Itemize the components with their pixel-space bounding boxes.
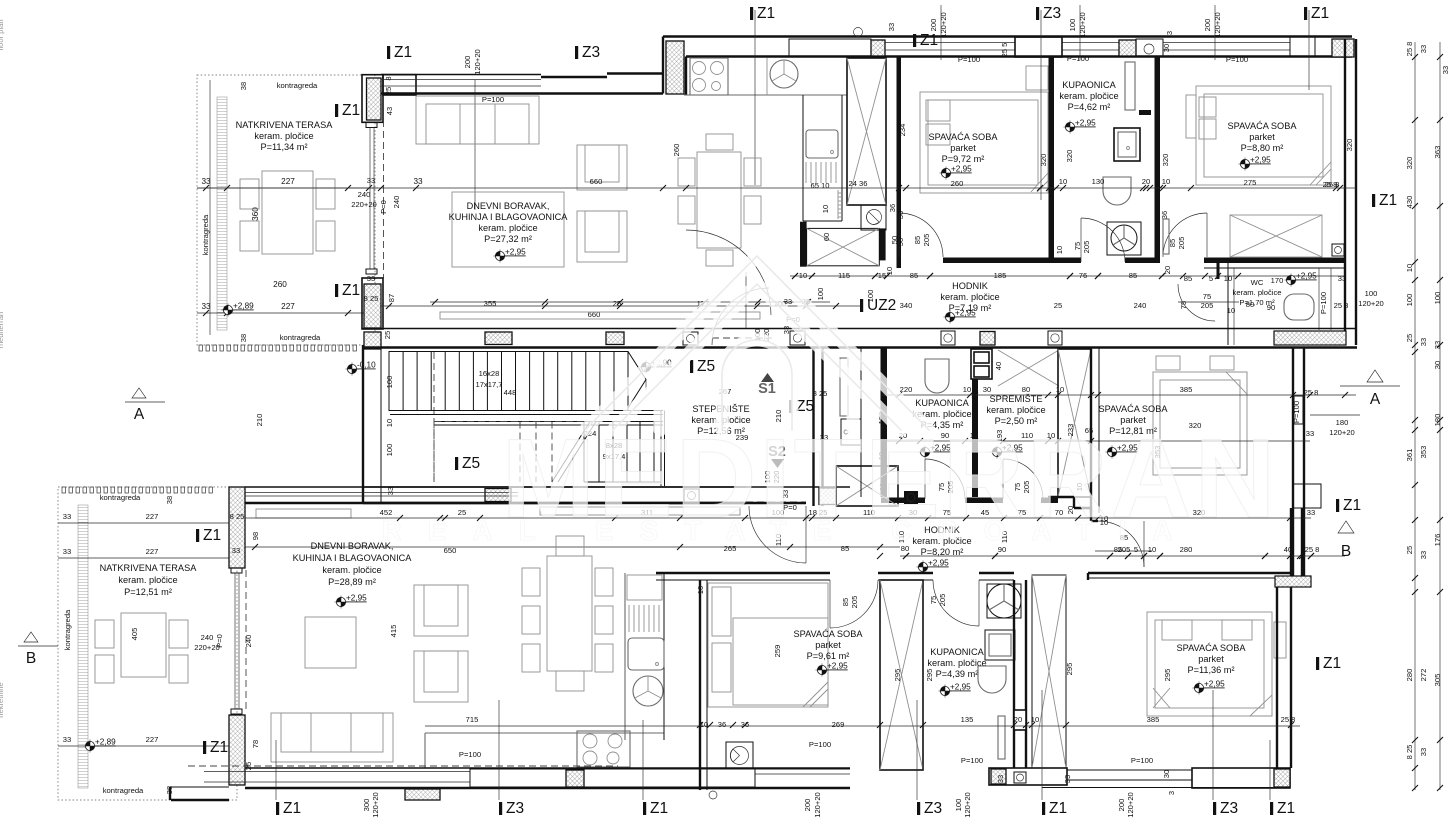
svg-text:+2,95: +2,95 <box>1296 272 1317 281</box>
svg-text:P=100: P=100 <box>1067 54 1089 63</box>
svg-text:P=9,61 m²: P=9,61 m² <box>807 651 850 661</box>
svg-text:30: 30 <box>1433 361 1442 369</box>
flight break V <box>628 352 646 409</box>
svg-text:floor plan: floor plan <box>0 19 5 50</box>
svg-text:361: 361 <box>1405 449 1414 462</box>
svg-text:120+20: 120+20 <box>473 49 482 75</box>
svg-text:Z1: Z1 <box>1343 497 1361 514</box>
kitchen2 counter south <box>425 732 664 734</box>
svg-text:Z1: Z1 <box>394 44 412 61</box>
svg-text:10: 10 <box>696 586 705 594</box>
svg-text:8 25: 8 25 <box>813 389 828 398</box>
svg-text:10: 10 <box>821 205 830 213</box>
kitchen2 right column <box>624 573 626 740</box>
svg-text:33: 33 <box>1306 429 1314 438</box>
svg-text:+2,95: +2,95 <box>950 683 971 692</box>
svg-text:25: 25 <box>1405 546 1414 554</box>
svg-text:234: 234 <box>898 124 907 137</box>
svg-text:33: 33 <box>63 512 71 521</box>
svg-text:180: 180 <box>1336 418 1349 427</box>
watermark logo and text <box>381 256 1278 546</box>
bedroom2 door arc <box>1163 213 1207 257</box>
svg-text:25: 25 <box>1054 301 1062 310</box>
marker Z3 bottom 1 <box>499 800 524 817</box>
svg-text:Z1: Z1 <box>283 800 301 817</box>
bedroom3 level <box>816 662 849 677</box>
svg-text:5: 5 <box>1209 274 1213 283</box>
lower flight dashed outline <box>434 421 598 423</box>
svg-text:100: 100 <box>1405 294 1414 307</box>
living1 dining table <box>697 152 741 248</box>
tick marks row y552 <box>877 553 883 559</box>
south wall top apt <box>362 328 1357 330</box>
svg-text:P=8,20 m²: P=8,20 m² <box>921 547 964 557</box>
svg-text:10: 10 <box>1148 545 1156 554</box>
marker Z1 right mid <box>1372 192 1397 209</box>
svg-text:8 25: 8 25 <box>364 294 379 303</box>
svg-text:16x28: 16x28 <box>479 369 500 378</box>
svg-text:25 8: 25 8 <box>1305 545 1320 554</box>
svg-text:P=0: P=0 <box>215 634 224 648</box>
terrace chair 4 <box>316 221 335 251</box>
svg-text:Z3: Z3 <box>924 800 942 817</box>
svg-text:200: 200 <box>1117 799 1126 812</box>
dim line 555 <box>900 555 1345 557</box>
bedroom3 door arc <box>830 580 878 628</box>
svg-text:20: 20 <box>1014 715 1022 724</box>
marker Z1 top edge 1 <box>750 5 775 22</box>
kupaonica south wall <box>1054 258 1081 264</box>
stair level -0,10 <box>346 361 377 376</box>
svg-text:8 25: 8 25 <box>1405 745 1414 760</box>
svg-text:33: 33 <box>201 177 211 186</box>
svg-text:P=100: P=100 <box>958 55 980 64</box>
svg-text:363: 363 <box>1433 146 1442 159</box>
svg-text:260: 260 <box>273 280 287 289</box>
svg-text:205: 205 <box>850 596 859 609</box>
svg-text:25 5: 25 5 <box>1000 43 1009 58</box>
svg-text:660: 660 <box>588 310 601 319</box>
svg-text:Z1: Z1 <box>650 800 668 817</box>
ventilation shaft top <box>847 58 886 205</box>
kitchen sink right <box>806 130 838 158</box>
bedroom4 wardrobe X <box>1032 575 1066 768</box>
svg-text:KUPAONICA: KUPAONICA <box>1062 80 1116 90</box>
wc door arc <box>1178 284 1215 321</box>
kupaonica2 toilet <box>978 666 1006 693</box>
dim chain line y188 <box>197 187 1356 189</box>
living2 coffee table <box>305 617 356 668</box>
svg-text:Z3: Z3 <box>1043 5 1061 22</box>
marker A right <box>1367 370 1383 382</box>
living1 armchair2 <box>577 211 627 262</box>
svg-text:85: 85 <box>1129 271 1137 280</box>
svg-text:76: 76 <box>1079 271 1087 280</box>
marker Z1 top kitchen <box>913 32 938 49</box>
svg-text:NATKRIVENA TERASA: NATKRIVENA TERASA <box>236 120 334 130</box>
dim line 518 <box>440 517 1311 519</box>
terrace chair 2 <box>240 221 259 251</box>
mid bedroom west wall <box>1090 348 1092 513</box>
marker Z3 bottom 2 <box>917 800 942 817</box>
svg-text:100: 100 <box>816 288 825 301</box>
terrace level marker +2,89 <box>222 302 255 317</box>
pillar kitchen corner <box>666 41 684 94</box>
svg-text:B: B <box>26 650 36 667</box>
svg-text:KUHINJA I BLAGOVAONICA: KUHINJA I BLAGOVAONICA <box>449 212 569 222</box>
pillar Z1 bottom-west <box>362 278 383 329</box>
right dim chain lines <box>1414 42 1416 790</box>
marker Z3 top inner <box>575 44 600 61</box>
bedroom1 level <box>940 165 973 180</box>
svg-text:B: B <box>1341 543 1351 560</box>
svg-text:Z1: Z1 <box>1323 655 1341 672</box>
svg-text:P=4,62 m²: P=4,62 m² <box>1068 102 1111 112</box>
bedroom2 level <box>1239 156 1272 171</box>
svg-text:+2,95: +2,95 <box>1075 119 1096 128</box>
stair level +2,90 <box>640 359 673 374</box>
svg-text:20: 20 <box>1142 177 1150 186</box>
marker B left <box>24 632 38 642</box>
hodnik top level <box>944 309 977 324</box>
svg-text:Z5: Z5 <box>462 455 480 472</box>
svg-text:+2,95: +2,95 <box>951 165 972 174</box>
svg-text:parket: parket <box>950 143 976 153</box>
living2 armchair1 <box>414 585 468 636</box>
washing machine bottom <box>726 742 753 769</box>
svg-text:115: 115 <box>838 271 850 280</box>
svg-text:Z3: Z3 <box>582 44 600 61</box>
terrace2 chair1 <box>95 620 114 648</box>
svg-text:227: 227 <box>146 735 159 744</box>
svg-text:280: 280 <box>1180 545 1193 554</box>
svg-text:Z1: Z1 <box>342 282 360 299</box>
svg-text:100: 100 <box>866 290 875 303</box>
north window band living <box>381 74 541 76</box>
svg-text:P=9,72 m²: P=9,72 m² <box>942 154 985 164</box>
svg-text:3: 3 <box>1167 791 1176 795</box>
svg-text:120+20: 120+20 <box>1078 12 1087 38</box>
svg-text:25: 25 <box>383 331 392 339</box>
marker Z1 west upper <box>196 527 221 544</box>
kitchen top wall outer <box>663 35 1352 37</box>
svg-text:210: 210 <box>255 414 264 427</box>
right chain ticks <box>1412 54 1418 60</box>
svg-text:3: 3 <box>1165 31 1174 35</box>
svg-text:25 8: 25 8 <box>1405 42 1414 57</box>
svg-text:120+20: 120+20 <box>939 12 948 38</box>
tick marks row y184 <box>903 185 909 191</box>
bedroom1 bed <box>920 92 1048 193</box>
svg-text:P=27,32 m²: P=27,32 m² <box>484 234 532 244</box>
stair south hatch b <box>819 488 836 505</box>
svg-text:parket: parket <box>1198 654 1224 664</box>
kitchen sink circle <box>770 60 798 88</box>
kupaonica2 level <box>939 683 972 698</box>
west window top apt <box>366 123 377 128</box>
svg-text:120+20: 120+20 <box>1213 12 1222 38</box>
kupaonica top level <box>1064 119 1097 134</box>
south wall hatch block b <box>606 332 624 345</box>
svg-text:33: 33 <box>1419 748 1428 756</box>
terrace kontragreda hatch strip vertical <box>217 97 227 330</box>
svg-text:10: 10 <box>1162 177 1170 186</box>
svg-text:120+20: 120+20 <box>813 792 822 818</box>
svg-text:kontragreda: kontragreda <box>201 214 210 255</box>
svg-text:33: 33 <box>1419 338 1428 346</box>
marker Z1 top edge 2 <box>1304 5 1329 22</box>
svg-text:240: 240 <box>244 635 253 648</box>
svg-text:+2,95: +2,95 <box>955 309 976 318</box>
mid bedroom south wall <box>1088 572 1293 574</box>
upper flight steps <box>389 352 628 411</box>
svg-text:SPAVAĆA SOBA: SPAVAĆA SOBA <box>1177 643 1247 653</box>
svg-text:keram. pločice: keram. pločice <box>478 223 537 233</box>
marker Z1 top inner <box>387 44 412 61</box>
svg-text:P=11,36 m²: P=11,36 m² <box>1187 665 1234 675</box>
east wall top apartment <box>1344 39 1346 345</box>
svg-text:200: 200 <box>463 56 472 69</box>
svg-text:33: 33 <box>63 547 71 556</box>
top guide lines <box>754 10 756 185</box>
svg-text:SPAVAĆA SOBA: SPAVAĆA SOBA <box>929 132 999 142</box>
svg-text:240: 240 <box>201 633 214 642</box>
tick marks row y518b <box>397 515 403 521</box>
svg-text:120+20: 120+20 <box>963 792 972 818</box>
svg-text:REAL ESTATE CROATIA: REAL ESTATE CROATIA <box>381 515 1198 546</box>
bedroom1 south wall <box>943 258 1049 264</box>
svg-text:100: 100 <box>1365 289 1378 298</box>
svg-text:24 36: 24 36 <box>848 179 867 188</box>
svg-text:120+20: 120+20 <box>1126 792 1135 818</box>
svg-text:10: 10 <box>1227 306 1235 315</box>
kupaonica2 door arc <box>933 580 979 626</box>
svg-text:36: 36 <box>1160 211 1169 219</box>
svg-text:33: 33 <box>386 487 395 495</box>
marker Z1 terrace upper <box>335 102 360 119</box>
svg-text:kontragreda: kontragreda <box>63 609 72 650</box>
living1 armchair1 <box>577 145 627 190</box>
svg-text:10: 10 <box>1224 274 1232 283</box>
svg-text:S1: S1 <box>758 381 776 397</box>
kitchen2 hatch <box>628 605 630 632</box>
dim chain line y395 mid <box>881 394 1356 396</box>
svg-text:40: 40 <box>994 362 1003 370</box>
svg-text:30: 30 <box>1162 44 1171 52</box>
svg-text:176: 176 <box>1433 534 1442 547</box>
svg-text:60: 60 <box>822 233 831 241</box>
washing machine top apt <box>861 205 886 230</box>
svg-text:240: 240 <box>392 196 401 209</box>
svg-text:+2,95: +2,95 <box>1204 680 1225 689</box>
svg-text:Z5: Z5 <box>796 398 814 415</box>
stove 4 burners <box>690 58 728 95</box>
pillar Z1 west bottom <box>229 715 245 785</box>
top entry arc <box>712 288 769 345</box>
living door arc to hodnik <box>686 230 771 315</box>
svg-text:200: 200 <box>929 19 938 32</box>
marker Z1 bottom 1 <box>276 800 301 817</box>
svg-text:KUPAONICA: KUPAONICA <box>930 647 984 657</box>
wall block 1 north <box>789 39 871 57</box>
svg-text:10: 10 <box>799 271 807 280</box>
svg-text:mediterran: mediterran <box>0 312 5 348</box>
svg-text:259: 259 <box>773 645 782 658</box>
svg-text:kontragreda: kontragreda <box>103 786 144 795</box>
kitchen hatch small lines <box>805 162 807 183</box>
svg-text:130: 130 <box>1092 177 1105 186</box>
south wall hatch block c <box>1048 331 1062 345</box>
svg-text:33: 33 <box>782 326 791 334</box>
mid bedroom level <box>1106 444 1139 459</box>
svg-text:Z1: Z1 <box>757 5 775 22</box>
window glazing north-right <box>885 42 1015 44</box>
terrace2 level +2,89 <box>84 738 117 753</box>
svg-text:272: 272 <box>1419 669 1428 682</box>
bedroom3 west wall <box>699 580 701 790</box>
svg-text:170: 170 <box>1271 276 1284 285</box>
svg-text:78: 78 <box>251 740 260 748</box>
mid rooms south wall <box>881 498 925 504</box>
svg-text:320: 320 <box>1161 154 1170 167</box>
mid kupaonica toilet <box>925 359 949 393</box>
svg-text:keram. pločice: keram. pločice <box>940 292 999 302</box>
svg-text:SPAVAĆA SOBA: SPAVAĆA SOBA <box>1228 121 1298 131</box>
svg-text:240: 240 <box>1134 301 1147 310</box>
svg-text:P=100: P=100 <box>961 756 983 765</box>
hodnik bottom level <box>917 559 950 574</box>
svg-text:33: 33 <box>1433 341 1442 349</box>
svg-text:33: 33 <box>413 177 423 186</box>
svg-text:38: 38 <box>165 496 174 504</box>
svg-text:25 8: 25 8 <box>1304 388 1319 397</box>
svg-text:DNEVNI BORAVAK,: DNEVNI BORAVAK, <box>467 201 550 211</box>
svg-text:P=0: P=0 <box>379 200 388 214</box>
svg-text:keram. pločice: keram. pločice <box>254 131 313 141</box>
svg-text:kontragreda: kontragreda <box>100 493 141 502</box>
svg-text:38: 38 <box>239 82 248 90</box>
svg-text:100: 100 <box>385 444 394 457</box>
svg-text:135: 135 <box>961 715 974 724</box>
svg-text:10: 10 <box>385 419 394 427</box>
svg-text:415: 415 <box>389 625 398 638</box>
kitchen right counter <box>802 95 804 221</box>
radiator corridor <box>840 358 848 416</box>
svg-text:320: 320 <box>1039 154 1048 167</box>
marker Z3 bottom 3 <box>1213 800 1238 817</box>
svg-text:715: 715 <box>466 715 479 724</box>
svg-text:Z1: Z1 <box>1049 800 1067 817</box>
dim chain line y441 mid <box>881 440 1310 442</box>
svg-text:Z1: Z1 <box>1311 5 1329 22</box>
svg-text:75: 75 <box>1073 242 1082 250</box>
terrace2 hatch strip <box>78 505 88 788</box>
bottom shaft X <box>836 466 898 506</box>
terrace chair 3 <box>316 179 335 209</box>
kupaonica2 shower <box>987 584 1021 618</box>
svg-text:353: 353 <box>1419 446 1428 459</box>
dim chain line y306 top <box>380 305 860 307</box>
wall block 2 north <box>1015 37 1062 57</box>
wall block 3 north <box>1119 40 1136 56</box>
marker B right <box>1338 521 1354 533</box>
svg-text:8: 8 <box>384 76 393 80</box>
svg-text:85: 85 <box>1184 274 1192 283</box>
svg-text:36: 36 <box>718 720 726 729</box>
svg-text:keram. pločice: keram. pločice <box>1059 91 1118 101</box>
svg-text:295: 295 <box>1163 669 1172 682</box>
svg-text:90: 90 <box>1267 303 1275 312</box>
svg-text:100: 100 <box>385 376 394 389</box>
svg-text:P=11,34 m²: P=11,34 m² <box>260 142 307 152</box>
svg-text:295: 295 <box>893 669 902 682</box>
facade step lines <box>541 76 607 78</box>
svg-text:10: 10 <box>1059 177 1067 186</box>
svg-text:P=100: P=100 <box>1319 292 1328 314</box>
svg-text:WC: WC <box>1251 278 1264 287</box>
marker Z1 terrace lower <box>335 282 360 299</box>
svg-text:269: 269 <box>832 720 845 729</box>
bedroom2 wardrobe X <box>1230 215 1322 257</box>
marker Z1 west lower <box>203 739 228 756</box>
svg-text:P=28,89 m²: P=28,89 m² <box>328 577 376 587</box>
landing edge lines <box>390 410 663 412</box>
svg-text:385: 385 <box>1180 385 1193 394</box>
terrace2 crenellated top edge <box>62 487 65 493</box>
svg-text:10: 10 <box>1055 246 1064 254</box>
kupaonica2 west wall <box>922 580 924 770</box>
terrace top outline dashed <box>197 75 375 345</box>
living2 armchair2 <box>414 651 468 702</box>
svg-text:Z1: Z1 <box>342 102 360 119</box>
kupaonica door arc <box>1081 218 1125 262</box>
marker Z3 top edge <box>1036 5 1061 22</box>
svg-text:280: 280 <box>1405 669 1414 682</box>
svg-text:+2,95: +2,95 <box>928 559 949 568</box>
kitchen counter line <box>684 94 847 96</box>
svg-text:180: 180 <box>1433 414 1442 427</box>
kupaonica washbasin <box>1114 128 1140 161</box>
stair west wall <box>362 345 364 503</box>
svg-text:448: 448 <box>504 388 517 397</box>
mid shaft X tall <box>1058 349 1091 497</box>
svg-text:320: 320 <box>1405 157 1414 170</box>
lower flight cut diagonal <box>552 422 596 483</box>
south wall column box b <box>941 331 955 345</box>
bottom apt north bedroom wall <box>656 572 830 574</box>
south wall west part <box>245 767 850 769</box>
svg-text:5: 5 <box>1134 545 1138 554</box>
stair axis dashed <box>433 352 435 482</box>
wc bowl <box>1284 294 1314 320</box>
svg-text:33: 33 <box>367 274 375 283</box>
terrace crenellated edge bottom <box>199 345 202 351</box>
terrace2 table <box>121 613 166 677</box>
svg-text:205: 205 <box>1177 237 1186 250</box>
svg-text:keram. pločice: keram. pločice <box>986 405 1045 415</box>
terrace dim lines <box>197 187 378 189</box>
svg-text:100: 100 <box>1068 19 1077 32</box>
svg-text:85: 85 <box>913 236 922 244</box>
svg-text:205: 205 <box>922 234 931 247</box>
svg-text:295: 295 <box>1065 663 1074 676</box>
svg-text:227: 227 <box>146 512 159 521</box>
marker Z1 bottom 4 <box>1270 800 1295 817</box>
terrace2 dim lines <box>58 522 240 524</box>
svg-text:A: A <box>134 406 145 423</box>
bedroom4 bed <box>1147 612 1272 716</box>
svg-text:80: 80 <box>1022 385 1030 394</box>
